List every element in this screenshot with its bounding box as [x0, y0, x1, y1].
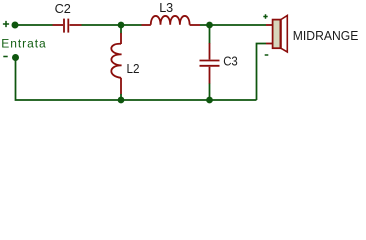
capacitor C3 — [200, 43, 220, 84]
wire junction B to speaker + — [210, 24, 267, 26]
svg-text:MIDRANGE: MIDRANGE — [293, 28, 359, 43]
junction node A — [118, 22, 125, 29]
wire junction B down to C3 — [209, 25, 211, 44]
speaker LS1 plus mark — [263, 14, 267, 18]
wire L3 to junction B — [200, 24, 210, 26]
svg-text:L2: L2 — [127, 61, 140, 76]
wire junction A down to L2 — [120, 25, 122, 34]
capacitor C2 — [53, 19, 82, 33]
junction node C (L2 bottom) — [118, 97, 125, 104]
speaker LS1 minus mark — [265, 54, 269, 56]
inductor L2 — [111, 33, 121, 95]
svg-text:Entrata: Entrata — [1, 37, 46, 51]
junction node D (C3 bottom) — [206, 97, 213, 104]
wire bottom rail up to speaker - — [257, 44, 267, 101]
junction node B — [206, 22, 213, 29]
speaker LS1 terminal pin + — [266, 24, 272, 26]
svg-text:C2: C2 — [55, 1, 71, 16]
speaker LS1 cone — [281, 16, 287, 53]
wire L2 to bottom rail — [120, 94, 122, 100]
speaker LS1 body — [273, 20, 281, 49]
node - input terminal — [3, 56, 7, 58]
svg-text:L3: L3 — [159, 0, 173, 15]
inductor L3 — [142, 16, 201, 25]
wire C2 to junction A — [82, 24, 122, 26]
bottom rail wire — [16, 58, 257, 101]
speaker LS1 terminal pin - — [266, 43, 272, 45]
wire junction A to L3 — [121, 24, 142, 26]
svg-text:C3: C3 — [223, 54, 238, 69]
node + input terminal — [3, 21, 9, 27]
wire input+ to C2 — [15, 24, 53, 26]
wire C3 to bottom rail — [209, 84, 211, 101]
